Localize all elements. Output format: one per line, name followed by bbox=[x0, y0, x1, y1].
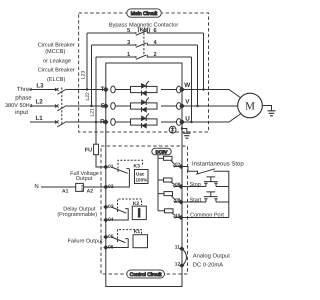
K3 dashed box bbox=[118, 160, 143, 172]
SCR module phase T bbox=[131, 81, 158, 96]
junction L23 on T wire bbox=[86, 88, 88, 90]
svg-text:L3: L3 bbox=[36, 83, 44, 90]
svg-text:W: W bbox=[184, 82, 190, 89]
svg-text:FU: FU bbox=[85, 148, 92, 154]
wire T to SCR row bbox=[115, 89, 130, 91]
wire L2 bbox=[30, 105, 57, 107]
svg-text:Failure Output: Failure Output bbox=[68, 239, 103, 245]
input branch 08 bbox=[158, 179, 164, 181]
full voltage output caption bbox=[70, 171, 99, 182]
wire SCR to terminal U bbox=[161, 121, 177, 123]
wire L21 tap bbox=[95, 57, 97, 122]
terminal 08 bbox=[174, 186, 181, 188]
svg-text:U: U bbox=[185, 115, 190, 122]
svg-text:3: 3 bbox=[127, 40, 130, 46]
wire L1 to terminal R bbox=[67, 121, 106, 123]
terminal 07 bbox=[174, 166, 181, 168]
enclosure ground wire bbox=[182, 129, 187, 133]
svg-text:Main Circuit: Main Circuit bbox=[131, 11, 158, 17]
wire L3 to terminal T bbox=[67, 89, 106, 91]
svg-text:11: 11 bbox=[175, 244, 180, 250]
main circuit dashed box bbox=[79, 13, 209, 132]
output terminal 03 bbox=[103, 204, 108, 209]
svg-text:L21: L21 bbox=[90, 108, 96, 117]
SCR module phase S bbox=[131, 97, 158, 112]
svg-text:1: 1 bbox=[127, 52, 130, 58]
svg-text:03: 03 bbox=[108, 204, 114, 210]
breaker pole L2 bbox=[55, 105, 67, 111]
KM drop to V bbox=[197, 45, 199, 106]
junction KM6 on W wire bbox=[202, 88, 204, 90]
circuit breaker caption bbox=[38, 42, 75, 83]
wire U to motor bbox=[182, 114, 241, 123]
output terminal 06 bbox=[103, 245, 108, 250]
KM contact 1-2 bbox=[96, 55, 192, 60]
wire L1 bbox=[30, 121, 57, 123]
svg-text:Instantaneous Stop: Instantaneous Stop bbox=[192, 160, 244, 167]
svg-text:A1: A1 bbox=[62, 189, 69, 195]
junction L22 on S wire bbox=[90, 105, 92, 107]
breaker mechanical link bbox=[61, 88, 63, 125]
junction KM2 on U wire bbox=[190, 121, 192, 123]
KM contact 5-6 bbox=[87, 31, 204, 36]
K2 dashed box bbox=[118, 199, 142, 212]
DC3V supply label bbox=[152, 148, 171, 155]
wire L22 tap bbox=[91, 45, 93, 106]
svg-text:or Leakage: or Leakage bbox=[43, 57, 71, 64]
svg-text:phase: phase bbox=[15, 95, 32, 102]
three phase source caption bbox=[5, 86, 33, 116]
svg-text:5: 5 bbox=[127, 28, 130, 34]
terminal 09 bbox=[175, 201, 182, 203]
svg-text:12: 12 bbox=[175, 261, 181, 267]
wire L23 tap bbox=[86, 33, 88, 90]
svg-text:Control Circuit: Control Circuit bbox=[130, 272, 162, 278]
svg-text:L1: L1 bbox=[36, 115, 44, 122]
svg-text:Circuit Breaker: Circuit Breaker bbox=[38, 42, 75, 49]
svg-text:M: M bbox=[245, 101, 255, 113]
svg-text:Start: Start bbox=[190, 198, 202, 204]
svg-text:05: 05 bbox=[108, 234, 114, 240]
motor ground bbox=[262, 106, 271, 111]
svg-text:L2: L2 bbox=[36, 99, 44, 106]
input branch 09 bbox=[158, 193, 164, 195]
svg-text:Uac: Uac bbox=[136, 172, 145, 177]
input branch 07 bbox=[158, 157, 164, 159]
svg-text:380V 50Hz: 380V 50Hz bbox=[5, 103, 33, 109]
svg-text:2: 2 bbox=[154, 52, 157, 58]
wire W to motor bbox=[182, 90, 241, 99]
breaker pole L3 bbox=[55, 88, 67, 94]
svg-text:Circuit Breaker: Circuit Breaker bbox=[38, 66, 75, 73]
svg-text:K3: K3 bbox=[134, 164, 141, 170]
relay contact K1 bbox=[106, 237, 128, 248]
KM mechanical link bbox=[143, 29, 145, 56]
svg-text:01: 01 bbox=[108, 164, 114, 170]
K3 note box Uac 100% bbox=[135, 170, 149, 184]
wire L2 to terminal S bbox=[67, 105, 106, 107]
K1 note box bbox=[133, 235, 148, 248]
K1 dashed box bbox=[118, 230, 142, 242]
svg-text:Output: Output bbox=[76, 176, 93, 182]
analog output bracket bbox=[183, 250, 187, 266]
relay contact K3 bbox=[106, 167, 130, 187]
junction L21 on R wire bbox=[95, 121, 97, 123]
svg-text:A2: A2 bbox=[87, 189, 94, 195]
svg-text:(ELCB): (ELCB) bbox=[47, 76, 65, 83]
SCR module phase R bbox=[131, 113, 158, 128]
fuse FU bbox=[96, 122, 106, 167]
KM drop to U bbox=[191, 57, 193, 122]
svg-text:06: 06 bbox=[108, 244, 114, 250]
output terminal 01 bbox=[103, 164, 108, 169]
wire S to SCR row bbox=[115, 105, 130, 107]
output terminal 02 bbox=[103, 184, 108, 189]
svg-text:DC3V: DC3V bbox=[156, 149, 168, 154]
K2 timer box bbox=[132, 206, 146, 220]
wire V to motor bbox=[182, 105, 238, 107]
svg-text:L22: L22 bbox=[85, 92, 91, 101]
terminal 10 bbox=[175, 217, 182, 219]
KM drop to W bbox=[203, 33, 205, 90]
svg-text:K1: K1 bbox=[134, 229, 141, 235]
svg-text:6: 6 bbox=[154, 28, 157, 34]
output terminal 05 bbox=[103, 234, 108, 239]
svg-text:L23: L23 bbox=[81, 70, 87, 79]
soft starter unit box bbox=[106, 63, 182, 287]
svg-text:(Programmable): (Programmable) bbox=[57, 212, 97, 218]
svg-text:04: 04 bbox=[108, 217, 114, 223]
wire SCR to terminal V bbox=[161, 105, 177, 107]
Control Circuit label bbox=[127, 270, 165, 278]
svg-text:02: 02 bbox=[108, 184, 114, 190]
wire L3 bbox=[30, 89, 57, 91]
svg-text:100%: 100% bbox=[136, 178, 148, 183]
wire SCR to terminal W bbox=[161, 89, 177, 91]
coil wire N to A1 bbox=[41, 186, 76, 188]
wire R to SCR row bbox=[115, 121, 130, 123]
KM coil bbox=[76, 183, 84, 191]
junction KM4 on V wire bbox=[196, 105, 198, 107]
control circuit dashed box bbox=[101, 146, 188, 274]
Main Circuit label bbox=[127, 9, 162, 17]
motor M1 bbox=[238, 93, 263, 118]
output terminal 04 bbox=[103, 217, 108, 222]
coil wire A2 to 02 bbox=[83, 186, 105, 188]
enclosure ground bbox=[183, 133, 191, 138]
breaker pole L1 bbox=[55, 121, 67, 127]
input branch 10 bbox=[158, 210, 165, 212]
svg-text:(MCCB): (MCCB) bbox=[45, 48, 65, 55]
svg-text:DC 0-20mA: DC 0-20mA bbox=[193, 262, 223, 269]
DC3V bus bbox=[157, 155, 159, 211]
delay output caption bbox=[57, 207, 97, 218]
KM contact 3-4 bbox=[92, 43, 198, 48]
protective earth terminal bbox=[169, 126, 176, 133]
svg-text:Analog Output: Analog Output bbox=[193, 252, 230, 259]
svg-text:N: N bbox=[34, 183, 38, 190]
svg-text:input: input bbox=[15, 109, 28, 116]
relay contact K2 bbox=[106, 207, 128, 220]
svg-text:V: V bbox=[185, 99, 190, 106]
svg-text:KM: KM bbox=[80, 185, 85, 191]
